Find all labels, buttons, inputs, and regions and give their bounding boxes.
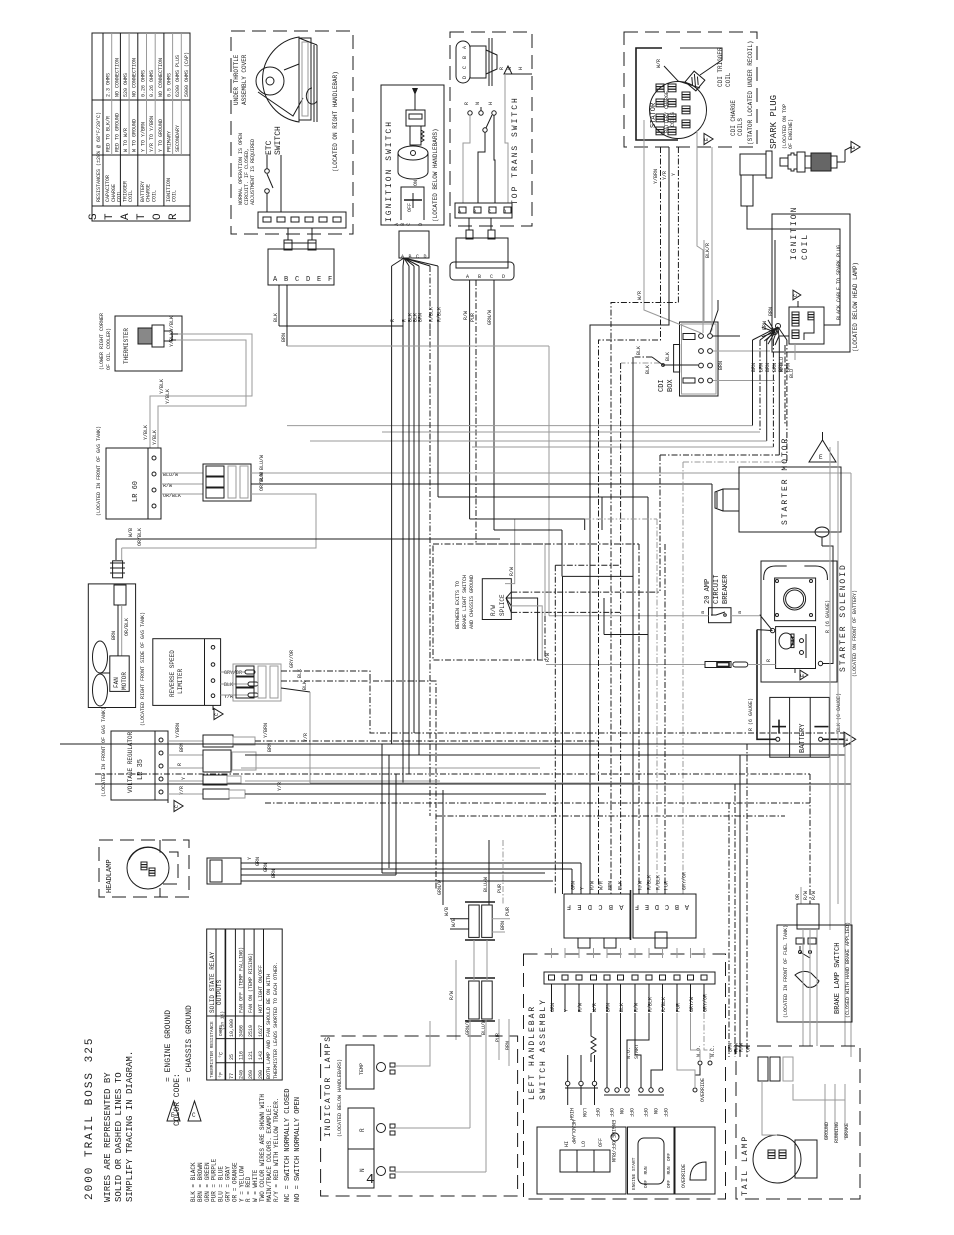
svg-text:TOP TRANS SWITCH: TOP TRANS SWITCH — [511, 96, 520, 205]
svg-text:THERMISTER: THERMISTER — [123, 328, 130, 364]
svg-text:D: D — [306, 276, 310, 284]
svg-text:BRN: BRN — [759, 363, 765, 372]
svg-text:IGNITION: IGNITION — [790, 206, 799, 260]
svg-text:W TO W/R: W TO W/R — [123, 128, 129, 152]
svg-text:BOTH LAMP AND FAN SHOULD BE ON: BOTH LAMP AND FAN SHOULD BE ON WITH — [266, 974, 272, 1079]
svg-text:C: C — [598, 902, 602, 910]
svg-text:°F: °F — [219, 1072, 225, 1078]
svg-text:BLU/W: BLU/W — [259, 455, 265, 470]
svg-text:E: E — [704, 138, 710, 141]
svg-text:R: R — [168, 213, 180, 220]
svg-text:a: a — [737, 611, 743, 614]
svg-text:Y/BLK: Y/BLK — [165, 389, 171, 404]
svg-text:STARTER SOLENOID: STARTER SOLENOID — [839, 563, 848, 672]
svg-text:OFF: OFF — [642, 1108, 648, 1117]
svg-text:OF ENGINE): OF ENGINE) — [788, 119, 794, 149]
svg-text:R/W: R/W — [490, 605, 497, 616]
svg-text:W/B: W/B — [451, 918, 457, 927]
svg-text:2.3 OHMS: 2.3 OHMS — [106, 73, 112, 97]
svg-text:ADJUSTMENT IS REQUIRED: ADJUSTMENT IS REQUIRED — [250, 139, 256, 205]
svg-text:0.26 OHMS: 0.26 OHMS — [140, 70, 146, 97]
svg-text:(LOCATED BELOW HANDLEBARS): (LOCATED BELOW HANDLEBARS) — [337, 1059, 343, 1137]
svg-text:C: C — [406, 223, 412, 226]
svg-text:BRN: BRN — [778, 363, 784, 372]
svg-text:R/BLK: R/BLK — [656, 875, 662, 890]
svg-text:GRN: GRN — [263, 863, 269, 872]
svg-text:BLK: BLK — [619, 1003, 625, 1012]
svg-text:A: A — [462, 46, 468, 49]
svg-text:C: C — [665, 902, 669, 910]
svg-text:Y: Y — [564, 1009, 570, 1012]
svg-text:GRN/W: GRN/W — [487, 310, 493, 325]
svg-text:ETC: ETC — [265, 140, 274, 155]
svg-text:C: C — [214, 713, 220, 716]
svg-text:BRAKE LIGHT SWITCH: BRAKE LIGHT SWITCH — [462, 575, 468, 629]
svg-text:HEADLAMP: HEADLAMP — [570, 1120, 576, 1144]
svg-text:B: B — [473, 209, 476, 215]
svg-text:GRN: GRN — [550, 1003, 556, 1012]
svg-text:F: F — [567, 902, 571, 910]
svg-text:OR/BLK: OR/BLK — [124, 618, 130, 636]
svg-text:CDI: CDI — [658, 379, 666, 392]
svg-text:HIGH: HIGH — [568, 1108, 574, 1120]
svg-text:B: B — [284, 276, 288, 284]
svg-text:INDICATOR LAMPS: INDICATOR LAMPS — [324, 1035, 333, 1137]
svg-text:W TO GROUND: W TO GROUND — [132, 119, 138, 152]
svg-text:C: C — [462, 66, 468, 69]
svg-text:R/W: R/W — [811, 891, 817, 900]
svg-text:Y TO Y/BRN: Y TO Y/BRN — [140, 122, 146, 152]
svg-text:A: A — [458, 209, 461, 215]
svg-text:(LOWER RIGHT CORNER: (LOWER RIGHT CORNER — [99, 313, 105, 370]
svg-text:N: N — [359, 1168, 366, 1172]
svg-text:R/W: R/W — [634, 1003, 640, 1012]
svg-text:T: T — [136, 213, 148, 220]
svg-text:COIL: COIL — [725, 72, 732, 87]
svg-text:ASSEMBLY COVER: ASSEMBLY COVER — [241, 54, 248, 105]
svg-text:ON: ON — [652, 1108, 658, 1114]
svg-text:OFF RUN OFF: OFF RUN OFF — [666, 1153, 672, 1188]
svg-text:C: C — [416, 254, 419, 260]
svg-text:OVERRIDE: OVERRIDE — [681, 1164, 687, 1188]
svg-text:SPARK PLUG: SPARK PLUG — [769, 95, 779, 149]
svg-text:R/W: R/W — [578, 1003, 584, 1012]
svg-text:BRN: BRN — [751, 363, 757, 372]
svg-text:BLACK CABLE TO SPARK PLUG: BLACK CABLE TO SPARK PLUG — [836, 245, 842, 320]
svg-text:BLK: BLK — [297, 669, 303, 678]
svg-text:SECONDARY: SECONDARY — [175, 125, 181, 152]
svg-text:PUR: PUR — [676, 1003, 682, 1012]
svg-text:SWITCH: SWITCH — [274, 126, 283, 155]
svg-text:R: R — [177, 763, 183, 766]
svg-text:BRN: BRN — [768, 307, 774, 316]
svg-text:H: H — [488, 102, 494, 105]
svg-text:FAN OFF (TEMP FALLING): FAN OFF (TEMP FALLING) — [239, 947, 245, 1013]
svg-text:OR: OR — [746, 1046, 752, 1052]
svg-text:260: 260 — [248, 1070, 254, 1079]
svg-text:BLK: BLK — [665, 352, 671, 361]
svg-text:STATOR: STATOR — [650, 102, 658, 128]
svg-text:6200 OHMS PLUS: 6200 OHMS PLUS — [175, 55, 181, 97]
svg-text:LOW: LOW — [581, 1108, 587, 1117]
svg-text:OR: OR — [795, 894, 801, 900]
svg-text:COIL: COIL — [151, 190, 157, 202]
svg-text:Y: Y — [181, 777, 187, 780]
svg-text:TWO COLOR WIRES ARE SHOWN WITH: TWO COLOR WIRES ARE SHOWN WITH — [259, 1094, 266, 1202]
svg-text:SWITCH ASSEMBLY: SWITCH ASSEMBLY — [539, 998, 548, 1100]
svg-text:D: D — [588, 902, 592, 910]
svg-text:PUR: PUR — [495, 1033, 501, 1042]
svg-text:R/W: R/W — [590, 881, 596, 890]
svg-text:GRN: GRN — [571, 881, 577, 890]
svg-text:OFF: OFF — [662, 1108, 668, 1117]
svg-text:1627: 1627 — [258, 1025, 264, 1037]
svg-text:R/BLK: R/BLK — [648, 997, 654, 1012]
svg-text:BRN: BRN — [111, 631, 117, 640]
svg-text:RUNNING: RUNNING — [834, 1122, 840, 1143]
svg-text:THERMISTER RESISTANCE: THERMISTER RESISTANCE — [209, 1021, 215, 1078]
svg-text:R: R — [359, 1128, 366, 1132]
svg-text:SOLID OR DASHED LINES TO: SOLID OR DASHED LINES TO — [114, 1072, 124, 1202]
svg-text:BATTERY: BATTERY — [799, 723, 807, 753]
svg-text:(in 1K): (in 1K) — [220, 1011, 226, 1030]
svg-text:OFF: OFF — [407, 203, 413, 212]
svg-text:COILS: COILS — [670, 112, 676, 127]
svg-text:A: A — [466, 274, 469, 280]
svg-text:0.5 OHMS: 0.5 OHMS — [167, 73, 173, 97]
svg-text:BLK: BLK — [302, 681, 308, 690]
svg-text:GRY/OR: GRY/OR — [682, 872, 688, 890]
svg-text:MAIN/TRACE COLORS. EXAMPLE:: MAIN/TRACE COLORS. EXAMPLE: — [266, 1105, 273, 1202]
svg-text:25: 25 — [229, 1054, 235, 1060]
svg-text:ON: ON — [618, 1108, 624, 1114]
svg-text:D: D — [424, 254, 427, 260]
svg-text:R/W: R/W — [509, 567, 515, 576]
svg-text:(CLOSED WITH HAND BRAKE APPLIE: (CLOSED WITH HAND BRAKE APPLIED) — [845, 922, 851, 1018]
svg-text:(LOCATED ON FRONT OF BATTERY): (LOCATED ON FRONT OF BATTERY) — [852, 590, 858, 677]
svg-text:D: D — [462, 76, 468, 79]
svg-text:Y/BLK: Y/BLK — [169, 316, 175, 331]
svg-text:GRY/OR: GRY/OR — [703, 994, 709, 1012]
svg-text:E: E — [317, 276, 321, 284]
svg-text:SOLID STATE RELAY: SOLID STATE RELAY — [209, 951, 216, 1013]
svg-text:AND CHASSIS GROUND: AND CHASSIS GROUND — [469, 575, 475, 629]
svg-text:R/W: R/W — [545, 653, 551, 662]
svg-text:TAIL LAMP: TAIL LAMP — [741, 1135, 750, 1196]
svg-text:Y/R: Y/R — [662, 171, 668, 180]
svg-text:E: E — [819, 454, 823, 461]
svg-text:Y/R: Y/R — [277, 782, 283, 791]
svg-text:PRIMARY: PRIMARY — [167, 131, 173, 152]
svg-text:LR 60: LR 60 — [132, 481, 140, 502]
svg-text:Y/BLK: Y/BLK — [152, 430, 158, 445]
svg-text:A: A — [120, 213, 132, 220]
svg-text:T: T — [104, 213, 116, 220]
svg-text:Y: Y — [247, 857, 253, 860]
svg-text:COLOR CODE:: COLOR CODE: — [173, 1073, 182, 1126]
svg-text:COILS: COILS — [737, 118, 744, 136]
svg-text:OFF: OFF — [598, 1138, 604, 1147]
svg-text:OR/BLK: OR/BLK — [259, 473, 265, 491]
svg-text:BRAKE LAMP SWITCH: BRAKE LAMP SWITCH — [834, 943, 842, 1014]
svg-text:BLK (6 GAUGE): BLK (6 GAUGE) — [836, 693, 842, 732]
svg-text:GRY/W: GRY/W — [689, 997, 695, 1012]
svg-text:OFF: OFF — [608, 1108, 614, 1117]
svg-text:PUR: PUR — [505, 907, 511, 916]
svg-text:CDI CHARGE: CDI CHARGE — [730, 100, 737, 136]
svg-text:2519: 2519 — [248, 1025, 254, 1037]
svg-text:77: 77 — [229, 1073, 235, 1079]
svg-text:BREAKER: BREAKER — [722, 574, 730, 604]
svg-text:290: 290 — [258, 1070, 264, 1079]
svg-text:SIMPLIFY TRACING IN DIAGRAM.: SIMPLIFY TRACING IN DIAGRAM. — [125, 1051, 135, 1202]
svg-text:IGNITION SWITCH: IGNITION SWITCH — [385, 120, 394, 222]
svg-text:R/BLK: R/BLK — [647, 875, 653, 890]
svg-text:THERMISTER LEADS SHORTED TO EA: THERMISTER LEADS SHORTED TO EACH OTHER. — [273, 962, 279, 1079]
svg-text:BRN: BRN — [718, 361, 724, 370]
svg-text:R/W: R/W — [463, 311, 469, 320]
svg-text:R/Y = RED WITH YELLOW TRACER.: R/Y = RED WITH YELLOW TRACER. — [273, 1098, 280, 1202]
svg-text:(LOCATED IN FRONT OF FUEL TANK: (LOCATED IN FRONT OF FUEL TANK) — [783, 925, 789, 1018]
svg-text:4: 4 — [366, 1172, 374, 1188]
svg-text:GRY/OR: GRY/OR — [289, 650, 295, 668]
svg-text:(STATOR LOCATED UNDER RECOIL): (STATOR LOCATED UNDER RECOIL) — [747, 41, 754, 145]
svg-text:R/W: R/W — [449, 991, 455, 1000]
svg-text:HI: HI — [564, 1141, 570, 1147]
svg-text:116: 116 — [239, 1051, 245, 1060]
svg-text:RED TO GROUND: RED TO GROUND — [114, 113, 120, 152]
svg-text:OF OIL COOLER): OF OIL COOLER) — [106, 328, 112, 370]
svg-text:C: C — [295, 276, 299, 284]
svg-text:NO = SWITCH NORMALLY OPEN: NO = SWITCH NORMALLY OPEN — [294, 1097, 302, 1202]
svg-text:Y/BRN: Y/BRN — [263, 723, 269, 738]
svg-text:W/B: W/B — [128, 528, 134, 537]
svg-text:R/BLK: R/BLK — [661, 997, 667, 1012]
svg-text:C: C — [490, 274, 493, 280]
svg-text:Y: Y — [671, 173, 677, 176]
svg-text:BRN: BRN — [500, 921, 506, 930]
svg-text:WIRES ARE REPRESENTED BY: WIRES ARE REPRESENTED BY — [103, 1072, 113, 1202]
svg-text:NO CONNECTION: NO CONNECTION — [132, 58, 138, 97]
svg-text:LO: LO — [581, 1141, 587, 1147]
svg-text:BLU/W: BLU/W — [483, 877, 489, 892]
svg-text:GRN/W: GRN/W — [437, 880, 443, 895]
svg-text:GROUND: GROUND — [824, 1122, 830, 1140]
svg-text:E: E — [851, 146, 857, 149]
svg-text:B: B — [609, 902, 613, 910]
svg-text:HEADLAMP: HEADLAMP — [106, 859, 114, 893]
svg-text:°C: °C — [219, 1052, 225, 1058]
svg-text:BRN: BRN — [418, 313, 424, 322]
svg-text:= ENGINE GROUND: = ENGINE GROUND — [164, 1010, 173, 1082]
svg-text:BRAKE: BRAKE — [844, 1123, 850, 1138]
svg-text:OR/BLK: OR/BLK — [137, 528, 143, 546]
svg-text:D: D — [503, 209, 506, 215]
svg-text:PUR: PUR — [664, 881, 670, 890]
svg-text:(LOCATED RIGHT FRONT SIDE OF G: (LOCATED RIGHT FRONT SIDE OF GAS TANK) — [140, 612, 146, 726]
svg-text:(LOCATED IN FRONT OF GAS TANK): (LOCATED IN FRONT OF GAS TANK) — [96, 426, 102, 516]
svg-text:RESISTANCES (±20% @ 68°F/20°C): RESISTANCES (±20% @ 68°F/20°C) — [96, 112, 102, 202]
svg-text:10,000: 10,000 — [229, 1019, 235, 1037]
svg-text:Y/BRN: Y/BRN — [653, 169, 659, 184]
svg-text:PUR: PUR — [470, 313, 476, 322]
svg-text:E: E — [800, 674, 806, 677]
svg-text:B: B — [675, 902, 679, 910]
svg-text:R/W: R/W — [739, 1043, 745, 1052]
svg-text:R/BLK: R/BLK — [437, 307, 443, 322]
svg-text:C: C — [192, 1112, 196, 1119]
svg-text:CIRCUIT: CIRCUIT — [713, 575, 721, 604]
svg-text:OFF RUN: OFF RUN — [643, 1166, 649, 1188]
svg-text:LEFT HANDLEBAR: LEFT HANDLEBAR — [528, 1005, 537, 1100]
svg-text:(LOCATED IN FRONT OF GAS TANK): (LOCATED IN FRONT OF GAS TANK) — [101, 707, 107, 797]
svg-text:(LOCATED ON RIGHT HANDLEBAR): (LOCATED ON RIGHT HANDLEBAR) — [332, 71, 339, 172]
svg-text:NO CONNECTION: NO CONNECTION — [114, 58, 120, 97]
svg-text:RED TO BLK/R: RED TO BLK/R — [106, 116, 112, 152]
svg-text:Y/BLK: Y/BLK — [169, 332, 175, 347]
svg-text:143: 143 — [258, 1051, 264, 1060]
svg-text:OVERRIDE: OVERRIDE — [700, 1078, 706, 1102]
svg-text:O: O — [152, 213, 164, 220]
svg-text:COIL: COIL — [128, 190, 134, 202]
svg-text:BRN: BRN — [606, 1003, 612, 1012]
svg-text:CDI TRIGGER: CDI TRIGGER — [717, 47, 724, 87]
svg-text:TEMP: TEMP — [359, 1063, 365, 1075]
svg-text:BLK: BLK — [636, 346, 642, 355]
svg-text:LR 35: LR 35 — [137, 759, 145, 780]
svg-text:MOTOR: MOTOR — [121, 672, 128, 690]
svg-text:R/W: R/W — [638, 881, 644, 890]
svg-text:GRN: GRN — [255, 857, 261, 866]
svg-text:R/BLK: R/BLK — [429, 307, 435, 322]
svg-text:OFF: OFF — [628, 1108, 634, 1117]
svg-text:20 AMP: 20 AMP — [704, 579, 712, 604]
svg-text:5000 OHMS (CAP): 5000 OHMS (CAP) — [184, 52, 190, 97]
svg-text:C: C — [793, 294, 799, 297]
svg-text:C: C — [488, 209, 491, 215]
svg-text:NO CONNECTION: NO CONNECTION — [158, 58, 164, 97]
svg-text:FAN ON (TEMP RISING): FAN ON (TEMP RISING) — [248, 953, 254, 1013]
svg-text:STARTER MOTOR: STARTER MOTOR — [781, 437, 790, 525]
svg-text:N.O.: N.O. — [696, 1045, 702, 1057]
svg-text:OUTPUTS: OUTPUTS — [216, 979, 223, 1005]
svg-text:F: F — [328, 276, 332, 284]
svg-text:BLK: BLK — [273, 313, 279, 322]
svg-text:R: R — [766, 659, 772, 662]
svg-text:BRN: BRN — [281, 333, 287, 342]
svg-text:ON: ON — [413, 180, 419, 186]
svg-text:D: D — [418, 223, 424, 226]
svg-text:H: H — [518, 67, 524, 70]
svg-text:N: N — [475, 102, 481, 105]
svg-text:B: B — [478, 274, 481, 280]
svg-text:BETWEEN EXITS TO: BETWEEN EXITS TO — [455, 581, 461, 629]
svg-text:Y/BLK: Y/BLK — [143, 425, 149, 440]
svg-text:LIMITER: LIMITER — [177, 668, 184, 694]
svg-text:E: E — [645, 902, 649, 910]
svg-text:121: 121 — [248, 1051, 254, 1060]
svg-text:W/B: W/B — [444, 907, 450, 916]
svg-text:N.C.: N.C. — [710, 1045, 716, 1057]
svg-text:BRN: BRN — [271, 869, 277, 878]
svg-text:UNDER THROTTLE: UNDER THROTTLE — [233, 54, 240, 105]
svg-text:(LOCATED BELOW HEAD LAMP): (LOCATED BELOW HEAD LAMP) — [852, 262, 859, 352]
svg-text:F: F — [635, 902, 639, 910]
svg-text:Y TO GROUND: Y TO GROUND — [158, 119, 164, 152]
svg-text:W/R: W/R — [637, 291, 643, 300]
svg-text:Y: Y — [580, 887, 586, 890]
svg-text:W/R: W/R — [656, 59, 662, 68]
svg-text:R (6 GAUGE): R (6 GAUGE) — [748, 698, 754, 731]
svg-text:BLK: BLK — [618, 881, 624, 890]
svg-text:240: 240 — [239, 1070, 245, 1079]
svg-text:(LOCATED BELOW HANDLEBARS): (LOCATED BELOW HANDLEBARS) — [432, 128, 439, 222]
svg-text:BRN: BRN — [765, 363, 771, 372]
svg-text:Y/R TO Y/BRN: Y/R TO Y/BRN — [149, 116, 155, 152]
svg-text:ENGINE START: ENGINE START — [631, 1157, 637, 1190]
svg-text:COIL: COIL — [801, 233, 810, 260]
svg-text:BLK: BLK — [645, 365, 651, 374]
svg-text:D: D — [502, 274, 505, 280]
svg-text:Y/BRN: Y/BRN — [175, 723, 181, 738]
svg-text:520 OHMS: 520 OHMS — [123, 73, 129, 97]
svg-text:BRN: BRN — [785, 363, 791, 372]
svg-text:3466: 3466 — [239, 1025, 245, 1037]
svg-text:C: C — [174, 805, 180, 808]
svg-text:R: R — [390, 319, 396, 322]
svg-text:BOX: BOX — [667, 379, 675, 392]
svg-text:R: R — [499, 67, 505, 70]
svg-text:NC = SWITCH NORMALLY CLOSED: NC = SWITCH NORMALLY CLOSED — [284, 1089, 292, 1202]
svg-text:BLK: BLK — [224, 682, 233, 688]
svg-text:BRN: BRN — [505, 1041, 511, 1050]
svg-text:PUR: PUR — [497, 884, 503, 893]
svg-text:W/R: W/R — [599, 881, 605, 890]
svg-text:D: D — [655, 902, 659, 910]
svg-text:FAN: FAN — [113, 677, 120, 688]
svg-text:B: B — [462, 56, 468, 59]
svg-text:W/R: W/R — [592, 1003, 598, 1012]
svg-text:BRN: BRN — [608, 881, 614, 890]
svg-text:COIL: COIL — [172, 190, 178, 202]
svg-text:R: R — [464, 102, 470, 105]
svg-text:SPLICE: SPLICE — [499, 594, 506, 616]
svg-text:REVERSE SPEED: REVERSE SPEED — [169, 650, 176, 697]
svg-text:a: a — [700, 611, 706, 614]
svg-text:0.26 OHMS: 0.26 OHMS — [149, 70, 155, 97]
svg-text:R/W: R/W — [803, 891, 809, 900]
svg-text:= CHASSIS GROUND: = CHASSIS GROUND — [185, 1005, 194, 1082]
svg-text:OFF: OFF — [594, 1108, 600, 1117]
svg-text:BLK/R: BLK/R — [705, 243, 711, 258]
svg-text:HOT LIGHT ON/OFF: HOT LIGHT ON/OFF — [258, 965, 264, 1013]
svg-text:E: E — [577, 902, 581, 910]
svg-text:2000 TRAIL BOSS 325: 2000 TRAIL BOSS 325 — [84, 1037, 96, 1200]
svg-text:S: S — [88, 213, 100, 220]
